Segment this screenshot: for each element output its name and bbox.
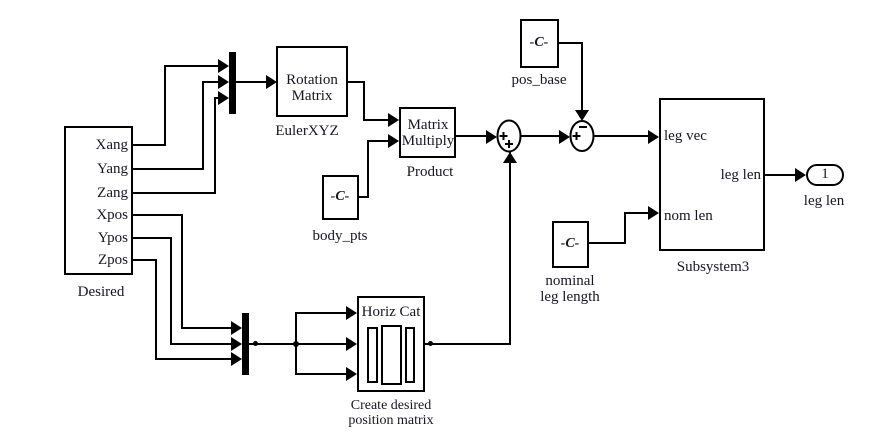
wire Horiz Cat to Sum1 bottom — [425, 343, 511, 345]
caption leg len — [804, 193, 844, 209]
caption Product — [407, 164, 454, 180]
constant body_pts — [322, 175, 359, 220]
caption Create desired position matrix — [348, 398, 433, 428]
wire Zpos to Mux2 — [133, 259, 157, 261]
sum Sum1 — [495, 118, 523, 154]
wire Yang to Mux1 — [133, 168, 204, 170]
port label Zang — [70, 185, 128, 201]
junction — [293, 341, 299, 347]
icon rect 1 — [367, 327, 378, 383]
icon rect 2 — [381, 325, 402, 385]
port dot — [253, 341, 258, 346]
port label leg len (inner) — [703, 167, 761, 183]
block Product (Matrix Multiply) — [399, 107, 456, 158]
constant nominal leg length — [552, 221, 589, 268]
port label Yang — [70, 161, 128, 177]
wire Subsystem3 to Out1 — [765, 174, 795, 176]
constant pos_base — [520, 19, 559, 68]
caption nominal leg length — [540, 273, 600, 305]
sum Sum2 — [568, 119, 596, 153]
wire Xang to Mux1 — [133, 144, 166, 146]
mux Mux1 — [229, 52, 236, 114]
port label Zpos — [70, 252, 128, 268]
wire nominal leg length to nom len — [589, 242, 626, 244]
wire body_pts to Product input 2 — [359, 196, 369, 198]
port label Ypos — [70, 230, 128, 246]
wire pos_base to Sum2 top — [559, 42, 583, 44]
port label leg vec — [664, 128, 707, 144]
wire Sum2 to Subsystem3 — [594, 135, 649, 137]
subsystem Desired — [64, 126, 133, 275]
caption body_pts — [312, 228, 367, 244]
wire Xpos to Mux2 — [133, 214, 183, 216]
outport Out1 leg len — [806, 164, 844, 186]
wire Ypos to Mux2 — [133, 237, 172, 239]
port label Xang — [70, 137, 128, 153]
subsystem EulerXYZ (Rotation Matrix) — [276, 46, 348, 117]
icon rect 3 — [405, 327, 415, 383]
subsystem Subsystem3 — [659, 98, 765, 251]
wire branch to Horiz Cat input 1 — [295, 312, 297, 344]
wire Mux2 to Horiz Cat (trunk) — [249, 343, 297, 345]
wire EulerXYZ to Product input 1 — [348, 81, 365, 83]
wire branch to Horiz Cat input 2 — [297, 343, 346, 345]
port label Xpos — [70, 207, 128, 223]
caption Subsystem3 — [677, 259, 750, 275]
caption pos_base — [512, 72, 567, 88]
wire branch to Horiz Cat input 3 — [295, 343, 297, 375]
wire Product to Sum1 — [456, 135, 487, 137]
block Horiz Cat (Create desired position matrix) — [357, 296, 425, 392]
wire Zang to Mux1 — [133, 192, 216, 194]
caption Desired — [78, 284, 125, 300]
wire Mux1 to EulerXYZ — [236, 81, 266, 83]
caption EulerXYZ — [275, 123, 338, 139]
mux Mux2 — [242, 313, 249, 375]
wire Sum1 to Sum2 — [520, 135, 560, 137]
port label nom len — [664, 208, 713, 224]
